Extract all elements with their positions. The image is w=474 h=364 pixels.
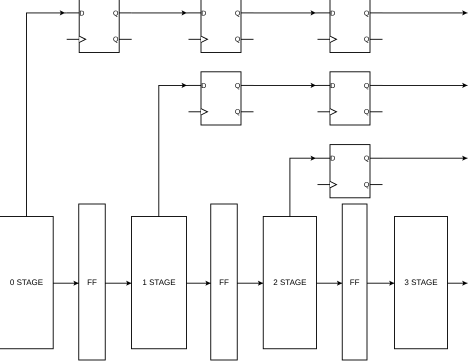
U5 pin CLK input stub — [318, 111, 331, 113]
wire from 1 STAGE top to U4.D — [159, 85, 189, 216]
arrowhead of wire from 0 STAGE to FF1 — [73, 281, 78, 286]
svg-text:1 STAGE: 1 STAGE — [142, 278, 175, 287]
arrowhead of wire U5.Q output — [462, 83, 467, 88]
arrowhead of wire from 0 STAGE top to U1.D — [60, 10, 65, 15]
wire U3.Q output — [383, 12, 468, 14]
arrowhead of wire U3.Q output — [462, 10, 467, 15]
wire from FF2 to 2 STAGE — [237, 282, 263, 284]
wire from 2 STAGE top to U6.D — [290, 158, 318, 216]
block 2 STAGE — [263, 217, 316, 349]
U5 pin Q output stub — [370, 84, 383, 86]
svg-text:FF: FF — [219, 278, 229, 287]
arrowhead of wire from FF1 to 1 STAGE — [126, 281, 131, 286]
U3 pin CLK input stub — [318, 38, 331, 40]
svg-text:D: D — [201, 83, 206, 90]
svg-text:Q: Q — [364, 37, 370, 44]
D flip-flop U6 body — [330, 145, 370, 198]
U4 pin Qbar output stub — [241, 111, 254, 113]
wire from U1.Q to U2.D — [132, 12, 189, 14]
U1 clock edge-trigger triangle — [79, 36, 86, 42]
arrowhead of wire from U1.Q to U2.D — [182, 10, 187, 15]
svg-text:Q: Q — [364, 182, 370, 189]
D flip-flop U1 body — [79, 0, 119, 53]
wire from 2 STAGE to FF3 — [317, 282, 343, 284]
wire from 0 STAGE top to U1.D — [27, 13, 67, 217]
U3 clock edge-trigger triangle — [330, 36, 337, 42]
arrowhead of wire from 1 STAGE to FF2 — [205, 281, 210, 286]
svg-text:Q: Q — [113, 10, 119, 17]
U6 pin CLK input stub — [318, 184, 331, 186]
wire from U2.Q to U3.D — [254, 12, 318, 14]
U2 pin Q output stub — [241, 12, 254, 14]
svg-text:D: D — [330, 10, 335, 17]
wire U6.Q output — [383, 157, 468, 159]
D flip-flop U4 body — [201, 72, 241, 125]
svg-text:FF: FF — [350, 278, 360, 287]
U2 pin CLK input stub — [189, 38, 202, 40]
svg-text:D: D — [330, 156, 335, 163]
arrowhead of wire from 2 STAGE top to U6.D — [311, 156, 316, 161]
svg-text:FF: FF — [87, 278, 97, 287]
U5 pin Qbar output stub — [370, 111, 383, 113]
U6 pin Qbar output stub — [370, 184, 383, 186]
arrowhead of wire from U2.Q to U3.D — [311, 10, 316, 15]
svg-text:Q: Q — [235, 83, 241, 90]
svg-text:Q: Q — [113, 37, 119, 44]
U1 pin D input stub — [67, 12, 80, 14]
U1 pin Q output stub — [119, 12, 132, 14]
U1 pin Qbar output stub — [119, 38, 132, 40]
U5 pin D input stub — [318, 84, 331, 86]
U4 pin D input stub — [189, 84, 202, 86]
wire 3 STAGE output — [448, 282, 468, 284]
svg-text:D: D — [201, 10, 206, 17]
svg-text:3 STAGE: 3 STAGE — [404, 278, 437, 287]
arrowhead of wire from FF3 to 3 STAGE — [389, 281, 394, 286]
U3 pin D input stub — [318, 12, 331, 14]
U5 clock edge-trigger triangle — [330, 109, 337, 115]
svg-text:Q: Q — [364, 156, 370, 163]
block 0 STAGE — [0, 217, 53, 349]
U4 pin Q output stub — [241, 84, 254, 86]
svg-text:2 STAGE: 2 STAGE — [273, 278, 306, 287]
svg-text:Q: Q — [364, 10, 370, 17]
arrowhead of wire from 1 STAGE top to U4.D — [182, 83, 187, 88]
U6 clock edge-trigger triangle — [330, 181, 337, 187]
block FF3 — [342, 204, 367, 360]
wire from 1 STAGE to FF2 — [187, 282, 211, 284]
arrowhead of wire from 2 STAGE to FF3 — [337, 281, 342, 286]
block FF1 — [79, 204, 106, 360]
svg-text:Q: Q — [235, 10, 241, 17]
D flip-flop U5 body — [330, 72, 370, 125]
block FF2 — [211, 204, 238, 360]
arrowhead of wire 3 STAGE output — [462, 281, 467, 286]
U3 pin Q output stub — [370, 12, 383, 14]
wire from 0 STAGE to FF1 — [53, 282, 79, 284]
arrowhead of wire U6.Q output — [462, 156, 467, 161]
U4 pin CLK input stub — [189, 111, 202, 113]
svg-text:D: D — [79, 10, 84, 17]
U6 pin D input stub — [318, 157, 331, 159]
block 1 STAGE — [132, 217, 187, 349]
wire from U4.Q to U5.D — [254, 84, 318, 86]
U3 pin Qbar output stub — [370, 38, 383, 40]
arrowhead of wire from FF2 to 2 STAGE — [258, 281, 263, 286]
wire from FF3 to 3 STAGE — [367, 282, 395, 284]
D flip-flop U3 body — [330, 0, 370, 53]
svg-text:Q: Q — [364, 83, 370, 90]
U6 pin Q output stub — [370, 157, 383, 159]
U2 clock edge-trigger triangle — [201, 36, 208, 42]
svg-text:Q: Q — [235, 37, 241, 44]
block 3 STAGE — [395, 217, 448, 349]
svg-text:Q: Q — [364, 109, 370, 116]
U2 pin Qbar output stub — [241, 38, 254, 40]
svg-text:D: D — [330, 83, 335, 90]
D flip-flop U2 body — [201, 0, 241, 53]
U2 pin D input stub — [189, 12, 202, 14]
wire from FF1 to 1 STAGE — [105, 282, 131, 284]
svg-text:Q: Q — [235, 109, 241, 116]
wire U5.Q output — [383, 84, 468, 86]
U4 clock edge-trigger triangle — [201, 109, 208, 115]
arrowhead of wire from U4.Q to U5.D — [311, 83, 316, 88]
svg-text:0 STAGE: 0 STAGE — [10, 278, 43, 287]
U1 pin CLK input stub — [67, 38, 80, 40]
